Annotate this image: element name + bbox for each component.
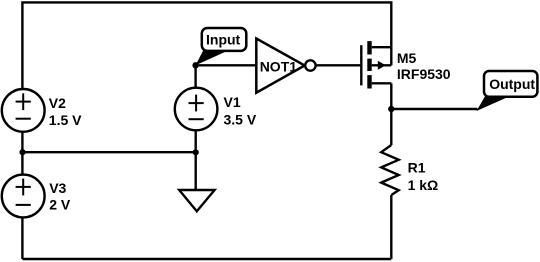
wire output node to R1: [390, 109, 392, 145]
wire input node to V1: [194, 65, 196, 88]
svg-text:1 kΩ: 1 kΩ: [408, 177, 439, 193]
ground: [179, 190, 214, 211]
svg-text:V1: V1: [224, 94, 241, 110]
wire V1 to ground node: [194, 130, 196, 152]
wire M5 source to output node: [390, 83, 392, 109]
svg-text:IRF9530: IRF9530: [397, 66, 451, 82]
voltage source V3: [2, 175, 45, 218]
junction node V2/V3 on mid rail: [19, 149, 25, 155]
svg-text:2 V: 2 V: [49, 197, 71, 213]
svg-text:Output: Output: [489, 76, 535, 92]
wire bottom rail to R1: [390, 195, 392, 259]
wire bottom rail: [22, 258, 391, 260]
wire V2 to mid rail: [21, 132, 23, 152]
wire V3 to bottom rail: [21, 217, 23, 259]
wire top rail: [22, 2, 391, 89]
inverter NOT1: [256, 39, 304, 93]
svg-text:V3: V3: [49, 180, 66, 196]
svg-text:1.5 V: 1.5 V: [49, 112, 82, 128]
voltage source V2: [2, 89, 45, 132]
flag Input tail: [196, 50, 226, 65]
wire NOT1 bubble to M5 gate: [316, 64, 361, 66]
wire mid rail to V3: [21, 152, 23, 175]
wire input node to NOT1: [196, 64, 257, 66]
transistor M5: [361, 41, 391, 88]
junction node V1/ground on mid rail: [193, 149, 199, 155]
svg-text:V2: V2: [49, 95, 66, 111]
junction output node: [388, 106, 394, 112]
voltage source V1: [175, 88, 218, 131]
flag Output tail: [477, 96, 509, 111]
svg-text:NOT1: NOT1: [260, 58, 298, 74]
inverter NOT1 output bubble: [305, 60, 315, 70]
wire mid rail: [22, 151, 195, 153]
wire M5 drain lead to body lead: [390, 47, 392, 65]
svg-text:R1: R1: [408, 160, 426, 176]
svg-text:3.5 V: 3.5 V: [224, 111, 257, 127]
flag Output box: [484, 71, 537, 97]
svg-text:Input: Input: [206, 31, 241, 47]
wire ground node to ground symbol: [194, 152, 196, 190]
wire output node to Output flag: [391, 108, 477, 110]
flag Input box: [202, 28, 247, 51]
node Input junction: [192, 62, 198, 68]
svg-text:M5: M5: [397, 50, 417, 66]
resistor R1: [381, 145, 399, 195]
